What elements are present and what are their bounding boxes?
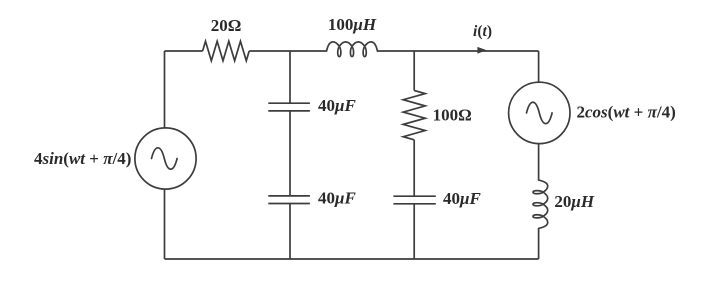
svg-text:40μF: 40μF	[318, 96, 356, 115]
svg-text:100μH: 100μH	[328, 15, 377, 34]
svg-text:4sin(wt + π/4): 4sin(wt + π/4)	[34, 149, 131, 168]
svg-text:40μF: 40μF	[443, 189, 481, 208]
svg-text:2cos(wt + π/4): 2cos(wt + π/4)	[577, 103, 676, 122]
svg-text:20Ω: 20Ω	[211, 16, 242, 35]
svg-text:100Ω: 100Ω	[433, 106, 472, 125]
svg-text:i(t): i(t)	[473, 23, 492, 40]
svg-text:40μF: 40μF	[318, 188, 356, 207]
svg-text:20μH: 20μH	[554, 192, 594, 211]
